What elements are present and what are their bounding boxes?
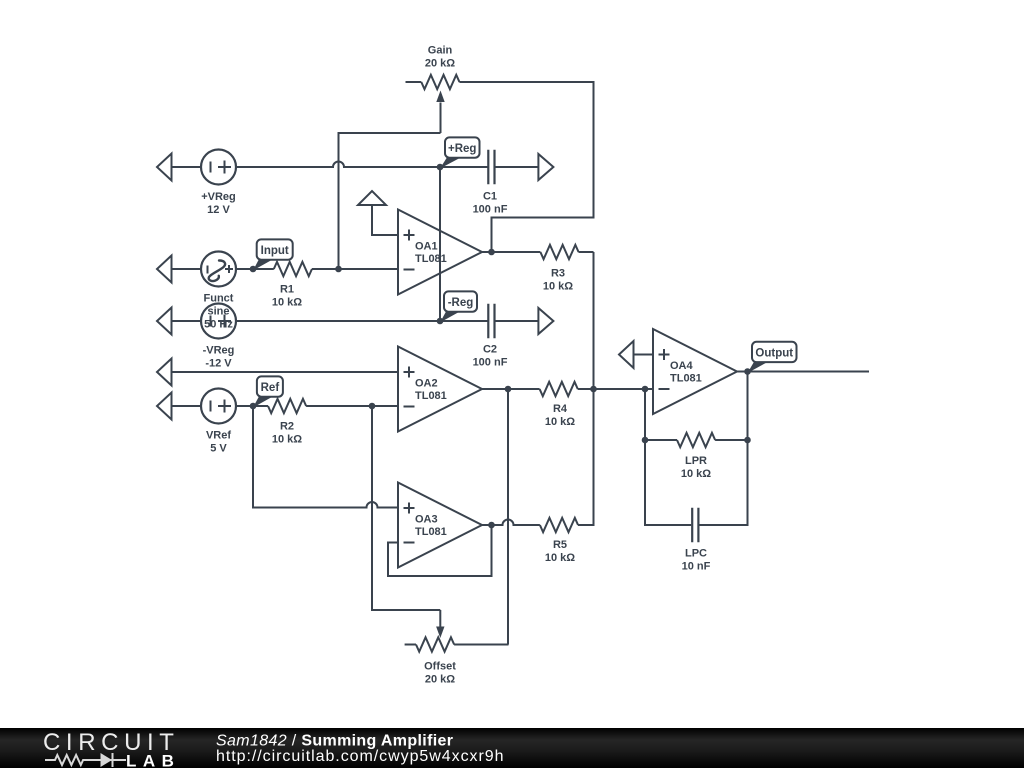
wire flag to function generator (172, 268, 202, 270)
op-amp OA4 TL081 (653, 329, 737, 414)
net flag -Reg (440, 291, 477, 322)
svg-text:-Reg: -Reg (448, 297, 474, 309)
capacitor C2 100nF (488, 304, 494, 338)
footer bar (0, 728, 1024, 768)
svg-text:Gain: Gain (428, 45, 453, 57)
svg-text:R3: R3 (551, 268, 565, 280)
power flag above OA1 noninverting input (372, 205, 398, 235)
junction OA4 output (744, 368, 751, 375)
terminal flag Input source (157, 256, 172, 283)
resistor R1 10k (253, 262, 398, 276)
wire Ref node down to OA3 noninverting (hop over offset line) (253, 406, 398, 508)
junction LPR right (744, 437, 751, 444)
svg-text:100 nF: 100 nF (473, 357, 508, 369)
svg-text:VRef: VRef (206, 430, 231, 442)
op-amp OA3 TL081 (398, 483, 482, 568)
resistor R5 10k (540, 518, 594, 532)
potentiometer Offset 20k (405, 637, 509, 651)
svg-text:Ref: Ref (261, 382, 280, 394)
svg-text:R4: R4 (553, 403, 568, 415)
svg-text:+Reg: +Reg (448, 143, 476, 155)
svg-text:R5: R5 (553, 539, 567, 551)
svg-text:OA1: OA1 (415, 241, 438, 253)
potentiometer Offset wiper arrow (439, 610, 441, 627)
svg-text:TL081: TL081 (670, 373, 702, 385)
wire OA2 inverting node down to Offset wiper (372, 406, 440, 610)
svg-text:10 kΩ: 10 kΩ (681, 468, 711, 480)
svg-text:Funct: Funct (204, 293, 234, 305)
resistor R2 10k (253, 399, 398, 413)
potentiometer Gain wiper arrow (440, 103, 442, 134)
wire Gain wiper to inverting node of OA1 (339, 133, 441, 269)
wire flag to OA4 noninverting input (634, 354, 654, 356)
svg-text:-VReg: -VReg (203, 345, 235, 357)
wire flag to VRef source (172, 405, 202, 407)
wire Gain right lead to OA1 output jog (459, 82, 593, 252)
svg-text:sine: sine (207, 306, 229, 318)
svg-text:20 kΩ: 20 kΩ (425, 58, 455, 70)
junction summing node R3 R4 R5 (590, 386, 597, 393)
wire flag to OA2 noninverting input (172, 371, 399, 373)
svg-text:Offset: Offset (424, 661, 456, 673)
svg-text:TL081: TL081 (415, 526, 447, 538)
potentiometer Gain 20k (406, 75, 460, 89)
svg-text:OA3: OA3 (415, 514, 438, 526)
wire flag to +VReg source (172, 166, 202, 168)
svg-text:R2: R2 (280, 421, 294, 433)
junction -Reg node (437, 318, 444, 325)
svg-text:10 kΩ: 10 kΩ (545, 552, 575, 564)
terminal flag VRef (157, 393, 172, 420)
svg-text:5 V: 5 V (210, 443, 227, 455)
junction Ref node (250, 403, 257, 410)
wire +Reg node to C1 (440, 166, 488, 168)
net flag Ref (253, 376, 283, 407)
capacitor LPC 10nF (692, 508, 698, 542)
junction Input node (250, 266, 257, 273)
junction R1 to Gain wiper (335, 266, 342, 273)
svg-text:Sam1842 / Summing Amplifier: Sam1842 / Summing Amplifier (216, 733, 453, 750)
svg-text:10 kΩ: 10 kΩ (545, 416, 575, 428)
wire VRef source to Ref node (236, 405, 253, 407)
net flag +Reg (440, 137, 480, 168)
svg-text:LPC: LPC (685, 548, 707, 560)
wire R5 up to summing node (578, 389, 594, 525)
net flag Input (253, 239, 293, 270)
wire OA4 output down to LPR and LPC (699, 372, 747, 526)
svg-text:http://circuitlab.com/cwyp5w4x: http://circuitlab.com/cwyp5w4xcxr9h (216, 748, 504, 765)
terminal flag +VReg (157, 154, 172, 181)
terminal flag OA4 noninverting (619, 341, 634, 368)
svg-text:20 kΩ: 20 kΩ (425, 674, 455, 686)
svg-text:10 kΩ: 10 kΩ (272, 434, 302, 446)
net flag Output (748, 342, 797, 373)
svg-text:100 nF: 100 nF (473, 204, 508, 216)
junction +Reg node (437, 164, 444, 171)
svg-text:C1: C1 (483, 191, 497, 203)
voltage source +VReg 12V (201, 150, 236, 185)
capacitor C1 100nF (488, 150, 494, 184)
wire OA4 inverting node down to LPR and LPC (645, 389, 691, 525)
wire OA3 feedback loop output to inverting input (388, 525, 492, 576)
resistor LPR 10k (645, 433, 748, 447)
terminal flag -VReg (157, 308, 172, 335)
svg-text:+VReg: +VReg (201, 191, 236, 203)
wire OA3 output to R5 (hop over OA2-offset line) (482, 520, 540, 525)
svg-text:10 kΩ: 10 kΩ (272, 297, 302, 309)
wire flag to -VReg source (172, 320, 202, 322)
op-amp OA2 TL081 (398, 347, 482, 432)
voltage source -VReg -12V (201, 304, 236, 339)
signal flag after C2 (538, 308, 553, 334)
terminal flag OA2 noninverting (157, 359, 172, 386)
wire OA2 output down to Offset right end (hops R5 wire) (507, 389, 509, 645)
junction OA4 inverting input node (642, 386, 649, 393)
function generator Input sine 50Hz (201, 252, 236, 287)
svg-text:LPR: LPR (685, 455, 707, 467)
CircuitLab logo resistor-diode glyph (45, 753, 126, 767)
svg-text:10 nF: 10 nF (682, 561, 711, 573)
svg-text:TL081: TL081 (415, 390, 447, 402)
wire C1 to signal flag (495, 166, 539, 168)
junction R2 to OA2 inverting input (369, 403, 376, 410)
wire R3 to summing node (593, 252, 595, 389)
wire OA4 output to right edge (737, 371, 869, 373)
svg-text:50 Hz: 50 Hz (204, 319, 233, 331)
svg-text:Output: Output (755, 347, 793, 359)
junction LPR left (642, 437, 649, 444)
wire +VReg source to +Reg node (hop over wiper line) (236, 162, 439, 167)
svg-text:OA2: OA2 (415, 378, 438, 390)
svg-text:TL081: TL081 (415, 253, 447, 265)
junction OA3 output (488, 522, 495, 529)
svg-text:10 kΩ: 10 kΩ (543, 281, 573, 293)
junction OA1 output (488, 249, 495, 256)
junction OA2 output (505, 386, 512, 393)
svg-text:OA4: OA4 (670, 360, 694, 372)
svg-text:-12 V: -12 V (205, 358, 232, 370)
svg-text:LAB: LAB (126, 752, 180, 768)
resistor R4 10k (482, 382, 653, 396)
resistor R3 10k (482, 245, 594, 259)
svg-text:R1: R1 (280, 284, 294, 296)
svg-text:C2: C2 (483, 344, 497, 356)
wire -Reg node to C2 (440, 320, 488, 322)
voltage source VRef 5V (201, 389, 236, 424)
svg-text:12 V: 12 V (207, 204, 230, 216)
op-amp OA1 TL081 (398, 210, 482, 295)
wire -VReg source to -Reg node (236, 320, 440, 322)
wire C2 to signal flag (495, 320, 539, 322)
wire OA1 supply rail +Reg to -Reg (439, 167, 441, 321)
wire function generator to Input node (236, 268, 253, 270)
svg-text:Input: Input (261, 245, 289, 257)
signal flag after C1 (538, 154, 553, 180)
